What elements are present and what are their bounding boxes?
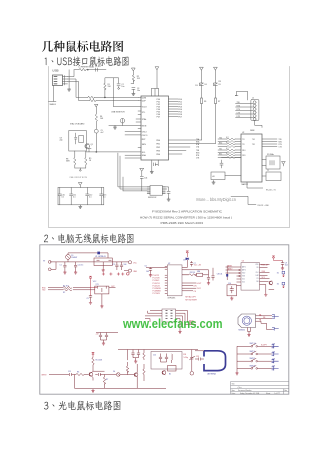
svg-text:MX8650: MX8650 — [239, 330, 245, 332]
svg-text:104: 104 — [124, 264, 127, 266]
current source circle — [120, 118, 125, 123]
svg-text:PB3: PB3 — [156, 150, 160, 152]
resistor R1 zigzag — [63, 286, 72, 288]
resistor R4 chain vertical — [95, 107, 97, 130]
junction dot — [87, 69, 88, 70]
ground below A box — [212, 181, 215, 185]
svg-text:C1: C1 — [60, 265, 62, 267]
svg-text:C11: C11 — [68, 371, 71, 373]
svg-text:5-20p: 5-20p — [184, 357, 188, 359]
subtitle 2 电脑无线鼠标电路图 — [44, 233, 134, 243]
svg-text:1K: 1K — [89, 160, 92, 162]
svg-text:VCLK: VCLK — [142, 107, 148, 109]
VCC tee left — [89, 276, 97, 296]
svg-text:ANT2: ANT2 — [228, 267, 232, 270]
svg-text:P07: P07 — [179, 116, 182, 118]
IC right pin stubs group1 — [169, 99, 179, 117]
svg-text:D3: D3 — [183, 260, 185, 262]
capacitor right — [167, 191, 170, 197]
resistor R2 vertical — [131, 75, 135, 84]
svg-text:D6: D6 — [205, 84, 207, 86]
USB connector J1 body — [53, 75, 63, 86]
shield stub wire — [49, 86, 57, 102]
svg-text:C7: C7 — [194, 263, 196, 265]
schematic 2 frame border — [40, 245, 289, 394]
svg-text:4K7: 4K7 — [226, 153, 229, 155]
svg-text:RST: RST — [142, 139, 147, 141]
LED chain 2 — [214, 67, 218, 98]
output wire right — [109, 287, 116, 289]
svg-text:T1O: T1O — [252, 139, 256, 141]
capacitor C2 electrolytic — [74, 262, 77, 271]
svg-text:C2 47u: C2 47u — [78, 265, 84, 267]
svg-text:4u7: 4u7 — [101, 132, 104, 134]
switch labels — [250, 343, 276, 368]
svg-text:1N4007: 1N4007 — [71, 257, 77, 259]
svg-text:OSCI: OSCI — [142, 132, 147, 134]
wire D+ with series resistor — [68, 81, 139, 100]
connecting wires red labels row — [185, 322, 196, 325]
svg-text:U2: U2 — [242, 132, 244, 134]
svg-text:K-LEFT: K-LEFT — [261, 345, 267, 347]
resistor R3 in loop — [189, 274, 196, 276]
capacitor C2 plates — [117, 84, 120, 86]
inductor inside shield — [171, 354, 174, 363]
svg-text:ANTENNA: ANTENNA — [208, 373, 217, 376]
svg-text:Date:: Date: — [232, 392, 236, 395]
U2 bottom stub — [247, 182, 263, 188]
svg-text:DR: DR — [256, 281, 259, 283]
wire VBUS pin1 to +5V rail — [68, 70, 75, 77]
svg-text:TXA: TXA — [196, 138, 200, 141]
input wire — [49, 374, 69, 376]
svg-text:R6: R6 — [204, 101, 206, 103]
IC top stubs — [152, 89, 159, 97]
svg-text:SW1 S-L: SW1 S-L — [250, 343, 257, 345]
svg-text:15K: 15K — [108, 86, 112, 88]
wire into U2 upper — [146, 268, 167, 269]
svg-text:104: 104 — [146, 271, 149, 273]
hang resistor C — [143, 350, 145, 361]
svg-text:XTAL CIRCUIT NOTE: XTAL CIRCUIT NOTE — [69, 176, 87, 179]
A box — [211, 172, 225, 180]
crystal box below shield — [168, 366, 177, 372]
subtitle 3 光电鼠标电路图 — [44, 401, 121, 411]
svg-text:PB1: PB1 — [156, 143, 160, 145]
svg-text:1 of 1: 1 of 1 — [274, 393, 278, 395]
vertical bus wires to eeprom — [118, 153, 147, 191]
bottom rail — [75, 375, 167, 389]
VCC tee above D3 — [186, 251, 189, 257]
svg-text:R5 100K: R5 100K — [96, 360, 103, 362]
MCU U2 body — [167, 265, 182, 296]
resonator XT1 box — [95, 286, 109, 294]
power cap chain — [140, 168, 144, 191]
svg-text:SW2 S: SW2 S — [250, 351, 256, 353]
svg-text:Rev: Rev — [284, 390, 287, 392]
svg-text:YA: YA — [259, 319, 262, 322]
resistor R3 zigzag — [88, 96, 95, 98]
connector bottom route — [255, 121, 262, 128]
switch bus vertical — [236, 346, 238, 371]
cap at top right — [281, 261, 284, 267]
switch row 3 — [237, 360, 272, 362]
grounds under stairs — [178, 330, 181, 334]
svg-text:R7: R7 — [218, 101, 220, 103]
svg-text:SEN: SEN — [142, 144, 147, 146]
coupling cap after Q3 — [95, 373, 116, 376]
bypass cap C11 — [70, 188, 73, 205]
svg-text:D4: D4 — [113, 371, 115, 373]
eeprom pins — [147, 187, 165, 193]
filter box lower left — [227, 285, 237, 296]
svg-text:D5: D5 — [219, 84, 221, 86]
connector J2 wires — [236, 104, 254, 118]
svg-text:XT1: XT1 — [96, 284, 99, 286]
ground hanging — [113, 126, 116, 130]
svg-text:10K: 10K — [272, 351, 276, 353]
capacitor marks inside — [75, 133, 77, 144]
ground — [79, 205, 82, 209]
connector top route — [235, 91, 248, 100]
svg-text:FY83ZXXAM Rev 2 APPLICATION SC: FY83ZXXAM Rev 2 APPLICATION SCHEMATIC — [152, 210, 222, 214]
svg-text:KEY B2 RIGHT: KEY B2 RIGHT — [185, 299, 197, 301]
svg-text:10K: 10K — [100, 118, 104, 120]
switch row 1 — [237, 345, 272, 347]
svg-text:XTAL ON BOARD: XTAL ON BOARD — [70, 123, 85, 126]
U2 left red pin labels — [153, 264, 270, 301]
svg-text:CLK2: CLK2 — [197, 288, 201, 290]
svg-text:KEY A1 LEFT: KEY A1 LEFT — [185, 296, 195, 299]
svg-text:VDD: VDD — [255, 264, 259, 266]
bypass cap C12 — [86, 188, 89, 205]
cap on vcc vertical — [89, 296, 92, 301]
wire D- with series resistor — [68, 79, 139, 97]
hang cap B — [137, 350, 140, 358]
crystal Y1 — [197, 273, 203, 276]
header right stair wires — [176, 311, 188, 331]
svg-text:HOW (?) RS232 SERIAL CONVERTER: HOW (?) RS232 SERIAL CONVERTER ( 300 to … — [140, 215, 232, 219]
resistor below box right — [85, 151, 87, 168]
resistor below box left — [74, 151, 76, 168]
svg-text:0.1: 0.1 — [73, 196, 76, 198]
junction dot — [96, 151, 97, 152]
svg-text:TX0: TX0 — [219, 137, 222, 139]
sensor body octagon — [238, 314, 256, 328]
svg-text:C5: C5 — [87, 298, 89, 300]
svg-text:RS-232 + GND: RS-232 + GND — [258, 205, 270, 207]
svg-text:Q1: Q1 — [91, 144, 93, 146]
crystal inside — [270, 161, 274, 166]
svg-text:XTAL: XTAL — [142, 118, 147, 121]
capacitor C4 — [120, 262, 123, 270]
svg-text:SCL: SCL — [142, 152, 146, 154]
main IC U1 body — [141, 96, 169, 160]
transistor Q5 — [134, 373, 138, 377]
ground — [167, 198, 170, 202]
svg-text:CTS: CTS — [279, 146, 282, 148]
svg-text:USB MONITOR: USB MONITOR — [111, 112, 125, 114]
USB connector pin name marks — [54, 77, 57, 84]
svg-text:TXB: TXB — [196, 150, 199, 152]
svg-text:CLK: CLK — [256, 272, 259, 274]
bypass cap bank rails — [58, 188, 104, 205]
svg-text:Y1: Y1 — [267, 170, 269, 172]
RF IC U3 body — [241, 263, 260, 291]
svg-text:ANT2: ANT2 — [242, 269, 246, 272]
svg-text:OSCO: OSCO — [142, 135, 148, 137]
svg-text:TXD: TXD — [42, 290, 46, 292]
svg-text:<Title>: <Title> — [237, 386, 242, 389]
svg-text:104: 104 — [144, 178, 147, 180]
wire oscillator output — [86, 151, 141, 153]
connector J2 body — [251, 100, 259, 121]
svg-text:0.1: 0.1 — [89, 196, 92, 198]
svg-text:PB4: PB4 — [156, 154, 160, 156]
svg-text:4K7: 4K7 — [226, 137, 229, 139]
bypass top wire — [68, 253, 108, 258]
svg-text:4K7: 4K7 — [226, 148, 229, 150]
svg-text:CS: CS — [194, 291, 197, 293]
svg-text:XC1: XC1 — [262, 277, 265, 279]
transistor Q4 — [162, 371, 166, 375]
svg-text:OUT: OUT — [111, 286, 115, 288]
svg-text:P07: P07 — [157, 116, 160, 118]
regulator U1 box — [94, 258, 112, 266]
power diode D3 blue — [186, 258, 189, 260]
box X3 — [266, 172, 281, 181]
U3 right pin wires — [260, 265, 270, 285]
bottom cap plates — [154, 163, 159, 166]
wire stub left of rail — [68, 70, 70, 87]
cap at loop end — [207, 275, 210, 281]
svg-text:USB: USB — [52, 69, 58, 73]
svg-text:T1I: T1I — [242, 139, 245, 141]
XTAL module box — [69, 131, 87, 152]
ground dot — [80, 170, 82, 172]
join rail lower — [133, 358, 139, 360]
ground under USB shell — [68, 88, 71, 92]
resistor to ground — [103, 375, 105, 389]
top rail right section — [118, 349, 151, 351]
svg-text:S2: S2 — [277, 283, 279, 285]
svg-text:J2: J2 — [252, 97, 254, 99]
sensor ball circles blue — [242, 316, 251, 325]
svg-text:U1 LM78L05: U1 LM78L05 — [95, 256, 106, 258]
svg-text:More... bbs.MyDigit.cn: More... bbs.MyDigit.cn — [196, 197, 236, 202]
svg-text:3M3: 3M3 — [66, 161, 70, 163]
svg-text:PB0: PB0 — [156, 140, 160, 142]
svg-text:T2I: T2I — [242, 144, 245, 146]
ground — [74, 271, 77, 275]
svg-text:RX1: RX1 — [219, 153, 222, 155]
transistor Q2 circle — [269, 281, 273, 285]
svg-text:RX0: RX0 — [219, 142, 222, 144]
ground under resonator — [100, 304, 103, 308]
switch row 2 — [237, 353, 272, 355]
svg-text:C6: C6 — [145, 266, 147, 268]
power flag crosses — [102, 273, 129, 276]
svg-text:10K: 10K — [272, 359, 276, 361]
wire usb monitor row — [109, 125, 141, 127]
red output labels — [42, 263, 138, 292]
svg-text:CTB: CTB — [196, 157, 199, 159]
resistor R6 — [76, 373, 89, 375]
svg-text:ANT1: ANT1 — [228, 264, 232, 267]
svg-text:16M: 16M — [197, 271, 201, 273]
capacitor C3 — [115, 262, 118, 270]
svg-text:GND: GND — [133, 271, 138, 273]
header J2 mid body — [162, 309, 176, 322]
svg-text:XC2: XC2 — [242, 282, 245, 284]
svg-text:+5V: +5V — [96, 334, 100, 336]
svg-text:10n: 10n — [137, 90, 140, 92]
resistor network value labels — [226, 137, 229, 155]
oscillator loop — [182, 270, 209, 275]
resistor row bus into U2 — [218, 139, 241, 147]
VCC tee top right — [272, 256, 282, 261]
svg-text:Title: Title — [232, 383, 235, 386]
vertical hang caps right — [126, 350, 128, 375]
switch S1 arrow — [282, 271, 285, 277]
svg-text:INPUT: INPUT — [42, 375, 47, 377]
cap at U2 input — [149, 269, 152, 274]
svg-text:T2O: T2O — [252, 144, 256, 146]
power input wire — [50, 261, 129, 263]
svg-text:SHIELD: SHIELD — [50, 104, 57, 106]
svg-text:P1.7/SCK: P1.7/SCK — [153, 293, 161, 295]
svg-text:Friday, December 05, 2008: Friday, December 05, 2008 — [240, 393, 259, 395]
+5V top rail wire — [74, 69, 106, 71]
input terminal circles — [48, 261, 51, 264]
svg-text:SW4 M: SW4 M — [250, 365, 256, 367]
svg-text:S1: S1 — [277, 272, 279, 274]
svg-text:RXD: RXD — [279, 141, 283, 143]
blue value labels power section — [43, 255, 222, 300]
shield box — [151, 352, 182, 370]
svg-text:0.1: 0.1 — [103, 196, 106, 198]
VCC tee — [92, 352, 95, 357]
svg-text:0.1: 0.1 — [62, 196, 65, 198]
U2 right pin wires — [262, 139, 277, 147]
diode circle — [117, 373, 121, 377]
svg-text:DX: DX — [195, 85, 198, 87]
svg-text:10n: 10n — [121, 86, 124, 88]
resistor R1 vertical — [104, 83, 106, 89]
schematic 1 frame border — [49, 67, 290, 228]
crystal box X2 — [266, 156, 280, 169]
power arrow down chain — [132, 68, 136, 75]
junction dot — [104, 97, 105, 98]
switch row 4 — [237, 367, 272, 369]
svg-text:U3: U3 — [242, 261, 244, 263]
cap right of D3 — [190, 261, 193, 267]
ground under regulator — [102, 268, 105, 272]
bottom join wire — [75, 168, 86, 170]
sensor right pins — [256, 316, 273, 330]
resistor x144 lower — [143, 364, 145, 381]
n-bracket filter wire — [105, 78, 119, 98]
svg-text:RTB: RTB — [196, 155, 199, 157]
svg-text:Size: Size — [232, 390, 235, 392]
svg-text:Sheet: Sheet — [266, 392, 271, 395]
svg-text:4K7: 4K7 — [226, 142, 229, 144]
terminal dot — [118, 88, 120, 90]
svg-text:VSS: VSS — [242, 276, 245, 278]
ground — [132, 92, 135, 96]
hang cap A — [131, 350, 134, 358]
ground — [63, 271, 66, 275]
wire to LED2 — [169, 143, 216, 145]
svg-text:TXD: TXD — [279, 139, 283, 141]
svg-text:UDP: UDP — [142, 100, 147, 102]
svg-text:C19: C19 — [196, 356, 199, 358]
red labels near header — [189, 320, 194, 325]
svg-text:MON: MON — [142, 125, 147, 127]
svg-text:RS-232 + 5V: RS-232 + 5V — [266, 189, 277, 191]
connector J2 pin circles — [253, 101, 256, 104]
header connectors right blue — [272, 314, 279, 331]
resistor R2 zigzag — [63, 289, 72, 291]
svg-text:R3 1M: R3 1M — [190, 272, 196, 274]
bracket notes — [231, 196, 256, 204]
svg-text:DOUT: DOUT — [197, 283, 202, 285]
caps inside shield — [159, 354, 168, 363]
svg-text:ANT1: ANT1 — [242, 266, 246, 269]
output terminal circles — [128, 261, 131, 264]
svg-text:10K: 10K — [272, 344, 276, 346]
transistor Q1 — [85, 144, 90, 149]
header combs right of switches — [272, 344, 279, 370]
LED chain 1 — [200, 67, 204, 98]
svg-text:SDA: SDA — [142, 154, 147, 157]
wire to LED1 — [169, 139, 202, 141]
cap left of U2 — [220, 158, 241, 168]
capacitor C3 plates — [132, 87, 135, 92]
decoupling cluster top — [96, 332, 118, 334]
svg-text:10K: 10K — [272, 366, 276, 368]
ground — [207, 281, 210, 285]
svg-text:nRF24E1: nRF24E1 — [168, 297, 176, 299]
svg-text:DB9F: DB9F — [250, 130, 255, 132]
svg-text:R2O: R2O — [242, 155, 246, 157]
crystal element — [79, 136, 84, 143]
ferrite bead L1 — [79, 68, 86, 71]
svg-text:XC1: XC1 — [242, 279, 245, 281]
IC left pin stubs — [136, 97, 141, 147]
svg-text:C8 104: C8 104 — [217, 274, 223, 276]
svg-text:PDB-232B 19th March 2003: PDB-232B 19th March 2003 — [161, 221, 204, 225]
capacitor C5 circle — [94, 129, 98, 133]
IC U2 body — [241, 134, 262, 182]
wire xtal stubs to IC — [125, 132, 141, 158]
transistor Q3 — [89, 372, 93, 376]
svg-text:PB2: PB2 — [156, 147, 160, 149]
svg-text:VCC: VCC — [93, 281, 97, 283]
svg-text:MAX232: MAX232 — [242, 183, 249, 186]
crossing vertical wire — [113, 78, 141, 107]
ground red — [230, 297, 233, 301]
svg-text:RX: RX — [219, 81, 222, 83]
antenna loop blue — [204, 351, 226, 371]
power arrow — [79, 183, 83, 188]
series cap — [70, 373, 77, 376]
svg-text:CS: CS — [256, 278, 258, 280]
svg-text:B1: B1 — [169, 374, 171, 376]
svg-text:VCC: VCC — [133, 263, 137, 265]
svg-text:www.elecfans.com: www.elecfans.com — [122, 316, 222, 331]
title 几种鼠标电路图 — [42, 41, 123, 52]
